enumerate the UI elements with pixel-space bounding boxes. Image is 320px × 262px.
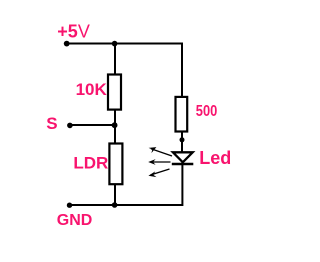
svg-text:500: 500	[196, 103, 218, 120]
svg-text:S: S	[46, 114, 57, 133]
svg-text:+5V: +5V	[57, 21, 90, 41]
svg-text:Led: Led	[199, 148, 231, 168]
svg-text:LDR: LDR	[73, 154, 108, 173]
svg-text:10K: 10K	[76, 80, 108, 99]
svg-text:GND: GND	[57, 212, 93, 229]
